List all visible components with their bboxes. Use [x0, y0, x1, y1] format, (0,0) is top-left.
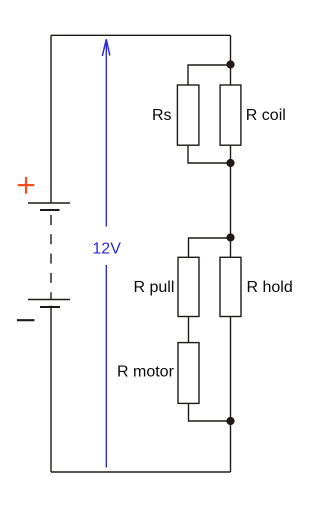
battery B1 positive label: [18, 177, 34, 194]
wire bottom rail: [51, 471, 231, 473]
battery B1 dashed middle wire: [50, 215, 52, 299]
voltage arrow 12V shaft upper: [105, 40, 107, 227]
svg-text:R motor: R motor: [117, 364, 175, 381]
svg-text:Rs: Rs: [152, 107, 172, 124]
svg-text:12V: 12V: [92, 241, 121, 258]
junction node top of R pull / R hold: [226, 233, 234, 241]
wire left lower (battery - lead): [50, 306, 52, 472]
voltage arrow 12V shaft lower: [105, 265, 107, 468]
wire right between R coil and R hold: [230, 145, 232, 257]
wire right from top rail to R coil: [230, 35, 232, 85]
wire R pull upper branch: [189, 238, 231, 257]
wire right from R hold to bottom rail: [230, 317, 232, 473]
wire top rail: [51, 34, 231, 36]
junction node bottom of Rs / R coil: [226, 159, 234, 167]
voltage arrow 12V head: [102, 39, 110, 56]
junction node bottom of R motor / R hold: [226, 417, 234, 425]
battery B1 top cell short plate: [40, 209, 60, 211]
wire R motor lower branch: [189, 403, 231, 421]
wire Rs lower branch: [188, 145, 231, 163]
svg-text:R coil: R coil: [246, 107, 286, 124]
resistor R pull: [178, 257, 199, 316]
battery B1 bottom cell short plate: [40, 306, 60, 308]
battery B1 bottom cell long plate: [28, 299, 70, 301]
battery B1 negative label: [17, 319, 35, 321]
svg-text:R hold: R hold: [247, 279, 293, 296]
resistor R coil: [220, 85, 241, 145]
wire R pull to R motor: [188, 317, 190, 343]
junction node top of Rs / R coil: [226, 60, 234, 68]
resistor Rs: [177, 85, 199, 145]
battery B1 top cell long plate: [28, 202, 70, 204]
resistor R motor: [178, 343, 199, 404]
wire Rs upper branch: [188, 65, 231, 85]
resistor R hold: [220, 257, 241, 316]
svg-text:R pull: R pull: [134, 279, 175, 296]
wire left upper (battery + lead): [50, 35, 52, 203]
